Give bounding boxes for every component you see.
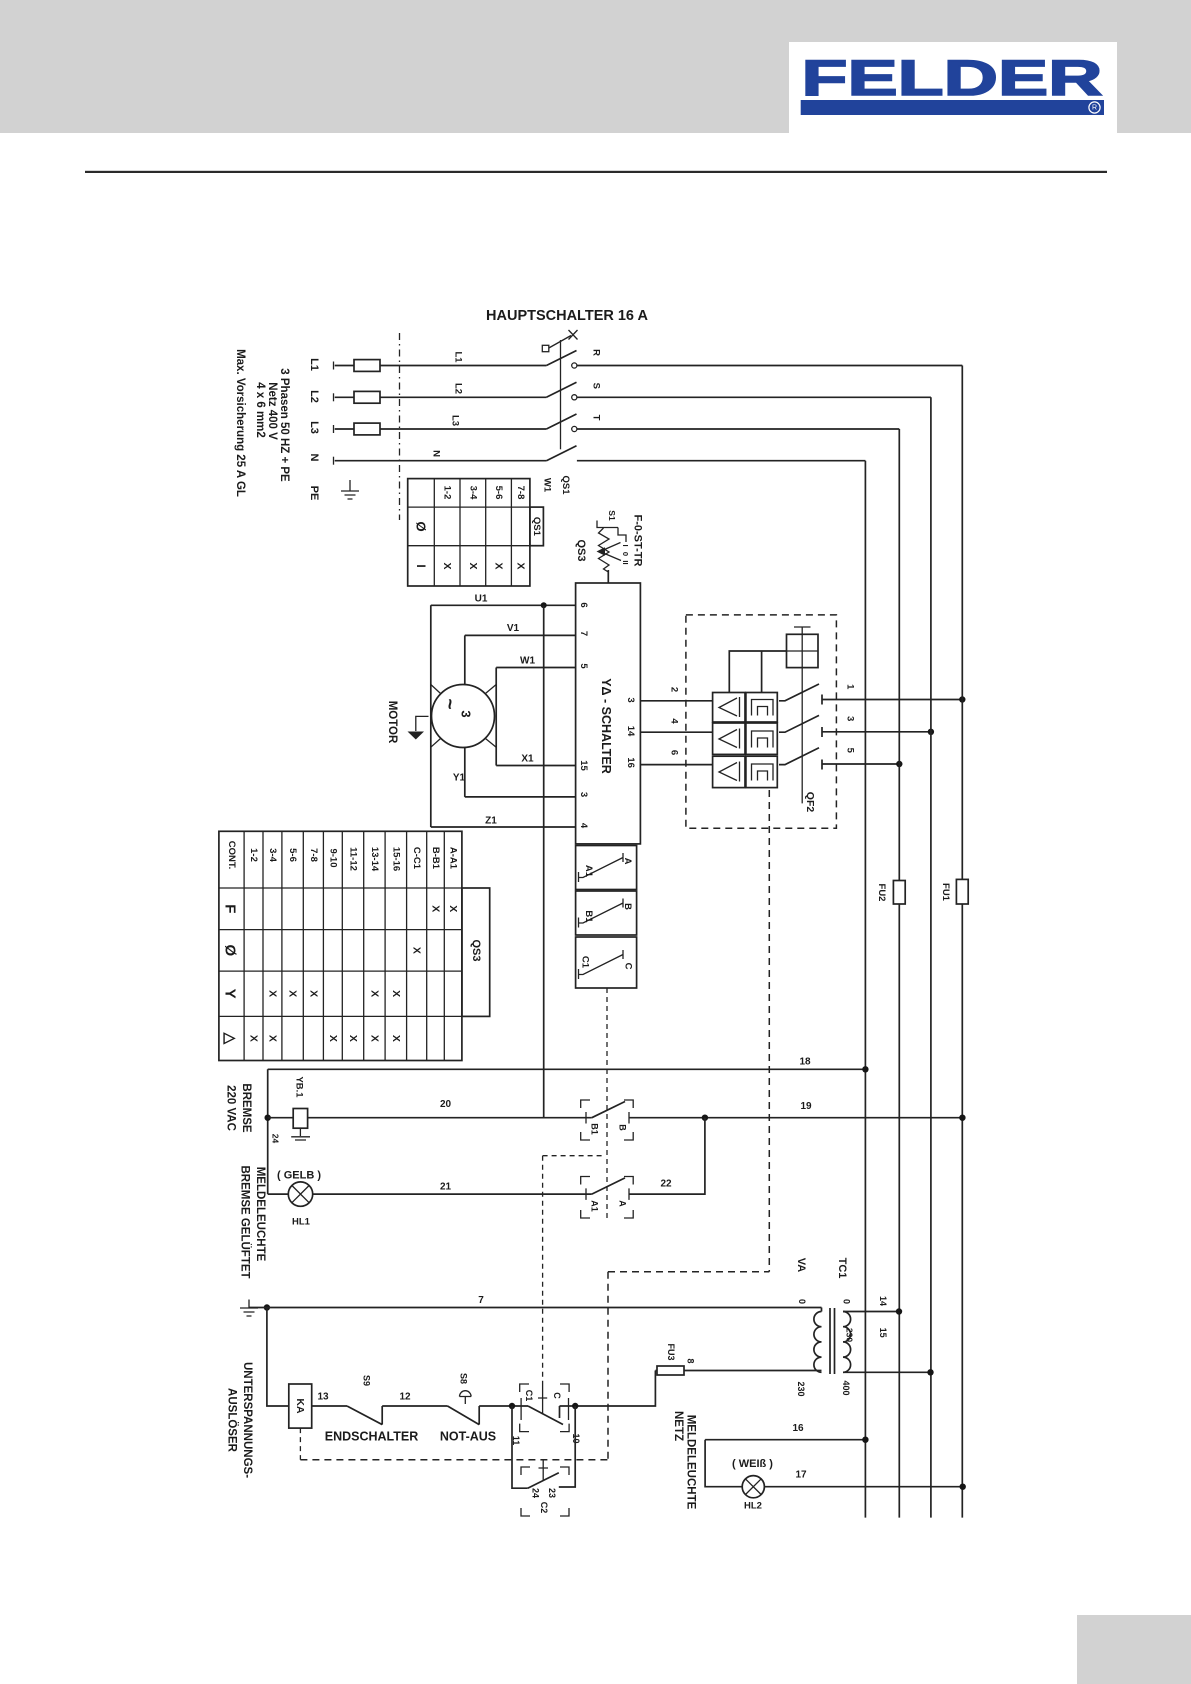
svg-text:5-6: 5-6 bbox=[493, 486, 504, 500]
svg-text:R: R bbox=[1092, 105, 1097, 112]
QF2 overload symbol row3 right bbox=[752, 764, 774, 781]
svg-text:L2: L2 bbox=[308, 390, 320, 403]
header gray band bbox=[0, 0, 1191, 133]
QF2 overload symbol row1 left bbox=[719, 697, 740, 717]
fuse FU3 bbox=[657, 1366, 684, 1375]
svg-text:F-0-ST-TR: F-0-ST-TR bbox=[632, 515, 644, 567]
svg-text:QS1: QS1 bbox=[560, 475, 571, 495]
svg-text:Netz 400 V: Netz 400 V bbox=[266, 382, 278, 440]
svg-text:B1: B1 bbox=[583, 910, 594, 923]
wire to C1 bbox=[479, 1405, 528, 1407]
wire 16 drop bbox=[705, 1440, 742, 1487]
svg-text:230: 230 bbox=[845, 1328, 855, 1342]
contact C2 blade bbox=[528, 1473, 559, 1489]
wire FU3 to contact chain bbox=[575, 1371, 657, 1407]
wire U1 drop to brake bbox=[543, 605, 545, 1117]
relay KA box bbox=[289, 1384, 312, 1428]
node 15/S bbox=[927, 1369, 933, 1375]
svg-text:1: 1 bbox=[845, 684, 856, 690]
svg-text:7-8: 7-8 bbox=[515, 486, 526, 500]
svg-text:3-4: 3-4 bbox=[468, 486, 479, 500]
wire YD out 4 bbox=[640, 731, 712, 733]
wire YD out 2 bbox=[640, 700, 712, 702]
svg-text:7: 7 bbox=[478, 1295, 484, 1306]
PE ground symbol bbox=[341, 480, 359, 499]
svg-text:I: I bbox=[414, 564, 428, 567]
svg-text:B: B bbox=[622, 903, 633, 910]
svg-text:7: 7 bbox=[578, 631, 589, 636]
svg-text:X: X bbox=[267, 1035, 279, 1042]
svg-text:220 VAC: 220 VAC bbox=[225, 1085, 237, 1131]
svg-text:FELDER: FELDER bbox=[802, 50, 1103, 106]
svg-text:QS3: QS3 bbox=[470, 939, 482, 961]
svg-text:13-14: 13-14 bbox=[369, 847, 380, 872]
svg-text:FU2: FU2 bbox=[876, 884, 887, 902]
Endschalter blade bbox=[347, 1406, 382, 1425]
wire 8 bbox=[684, 1370, 822, 1372]
svg-text:Y: Y bbox=[222, 989, 239, 999]
QF2 coil cross lines bbox=[787, 627, 819, 668]
svg-text:X: X bbox=[411, 947, 423, 954]
svg-text:L2: L2 bbox=[453, 383, 464, 394]
svg-text:18: 18 bbox=[799, 1057, 811, 1068]
switch blade L2 bbox=[546, 382, 576, 397]
svg-text:0: 0 bbox=[842, 1299, 852, 1304]
svg-text:16: 16 bbox=[625, 757, 636, 768]
svg-text:3: 3 bbox=[625, 697, 636, 702]
selector fan lines bbox=[605, 543, 622, 561]
wire Z1 bbox=[431, 826, 576, 828]
svg-text:S8: S8 bbox=[458, 1373, 468, 1384]
svg-text:N: N bbox=[431, 450, 442, 457]
svg-text:FU1: FU1 bbox=[940, 883, 951, 902]
svg-text:C: C bbox=[623, 963, 634, 970]
motor stub NW bbox=[431, 685, 441, 694]
motor rail V1-Y1 upper bbox=[464, 635, 466, 684]
svg-text:HL2: HL2 bbox=[744, 1501, 762, 1512]
svg-text:A-A1: A-A1 bbox=[448, 847, 459, 870]
svg-text:7-8: 7-8 bbox=[308, 848, 319, 862]
svg-text:10: 10 bbox=[571, 1433, 581, 1443]
svg-text:F: F bbox=[222, 904, 239, 913]
svg-text:MELDELEUCHTE: MELDELEUCHTE bbox=[254, 1167, 266, 1262]
svg-text:Max. Vorsicherung 25 A GL: Max. Vorsicherung 25 A GL bbox=[234, 349, 246, 497]
svg-text:VA: VA bbox=[795, 1258, 807, 1273]
QS1 table row lines bbox=[408, 507, 530, 546]
svg-text:X: X bbox=[347, 1035, 359, 1042]
bottom-right gray box bbox=[1077, 1615, 1191, 1684]
svg-text:3: 3 bbox=[845, 716, 856, 721]
contact C1 brackets bbox=[520, 1384, 569, 1432]
wire N to bus bbox=[577, 460, 866, 462]
svg-text:X: X bbox=[369, 990, 381, 997]
wire R to bus bbox=[577, 365, 962, 367]
QF2 coil box bbox=[787, 634, 819, 667]
QF2 linkage dashed down bbox=[768, 790, 770, 1272]
svg-text:6: 6 bbox=[669, 750, 680, 755]
wire L1 left segment bbox=[335, 365, 354, 367]
wire U1 bbox=[431, 604, 576, 606]
wire 22 bbox=[629, 1118, 705, 1194]
wire 19 bbox=[629, 1117, 962, 1119]
svg-text:L3: L3 bbox=[308, 421, 320, 434]
svg-text:HAUPTSCHALTER 16 A: HAUPTSCHALTER 16 A bbox=[486, 308, 648, 324]
svg-text:3: 3 bbox=[459, 710, 474, 717]
selector zigzag bbox=[599, 528, 610, 572]
svg-text:L1: L1 bbox=[453, 351, 464, 363]
svg-text:MELDELEUCHTE: MELDELEUCHTE bbox=[685, 1415, 697, 1510]
svg-text:BREMSE: BREMSE bbox=[240, 1083, 252, 1133]
lamp HL1 cross bbox=[292, 1186, 309, 1203]
svg-text:( WEIß ): ( WEIß ) bbox=[732, 1458, 773, 1470]
svg-text:BREMSE GELÜFTET: BREMSE GELÜFTET bbox=[239, 1165, 252, 1278]
svg-text:R: R bbox=[590, 349, 601, 356]
svg-text:19: 19 bbox=[800, 1101, 812, 1112]
wire 16 bbox=[705, 1439, 865, 1441]
QS3 table column lines bbox=[244, 831, 444, 1060]
bus R vertical bbox=[961, 366, 963, 1518]
svg-text:3-4: 3-4 bbox=[267, 848, 278, 862]
contact B1 brackets bbox=[581, 1100, 634, 1140]
fuse FU1 bbox=[956, 879, 968, 904]
node 14/T bbox=[896, 1308, 902, 1314]
svg-text:S1: S1 bbox=[607, 510, 617, 521]
QS1 table column lines bbox=[434, 479, 511, 586]
svg-text:Y1: Y1 bbox=[453, 773, 466, 784]
YB.1 brake symbol bbox=[291, 1128, 310, 1140]
wire L2 left segment bbox=[335, 396, 354, 398]
svg-text:X: X bbox=[467, 562, 479, 569]
svg-text:NETZ: NETZ bbox=[672, 1411, 684, 1441]
svg-text:Ø: Ø bbox=[414, 521, 429, 531]
selector wiper arrow bbox=[597, 547, 606, 555]
wire L3 to switch bbox=[380, 428, 546, 430]
svg-text:4: 4 bbox=[578, 823, 589, 829]
svg-text:Ø: Ø bbox=[222, 945, 239, 957]
svg-text:YΔ - SCHALTER: YΔ - SCHALTER bbox=[599, 678, 613, 774]
svg-text:X: X bbox=[287, 990, 299, 997]
node 16/N bbox=[862, 1437, 868, 1443]
YD aux contact box B1 bbox=[576, 891, 637, 935]
svg-text:23: 23 bbox=[547, 1488, 557, 1498]
node QF2-1/R bbox=[959, 696, 965, 702]
motor rail U1-Z1 bbox=[430, 605, 432, 827]
header rule bbox=[85, 171, 1107, 173]
svg-text:12: 12 bbox=[399, 1392, 411, 1403]
contact A1 blade bbox=[592, 1178, 625, 1194]
svg-text:B-B1: B-B1 bbox=[430, 847, 441, 870]
fuse F-L3 bbox=[354, 423, 380, 435]
main switch handle link bbox=[549, 336, 571, 349]
node QF2-5/T bbox=[896, 761, 902, 767]
QF2 overload boxes bbox=[713, 693, 745, 723]
svg-text:22: 22 bbox=[660, 1179, 672, 1190]
motor rail W1-X1 bbox=[495, 668, 497, 766]
svg-text:A1: A1 bbox=[583, 865, 594, 878]
svg-text:0: 0 bbox=[797, 1299, 807, 1304]
node brake rail bbox=[265, 1115, 271, 1121]
node 18/N bbox=[862, 1066, 868, 1072]
svg-text:( GELB ): ( GELB ) bbox=[277, 1170, 321, 1182]
svg-text:PE: PE bbox=[308, 486, 320, 501]
logo white box bbox=[789, 42, 1117, 135]
node QF2-3/S bbox=[928, 729, 934, 735]
svg-text:8: 8 bbox=[686, 1358, 696, 1363]
wire QF2-5 to T bus bbox=[822, 763, 899, 765]
svg-text:6: 6 bbox=[578, 602, 589, 607]
svg-text:21: 21 bbox=[440, 1182, 452, 1193]
svg-text:MOTOR: MOTOR bbox=[386, 701, 398, 744]
QF2 blade linkage bbox=[801, 668, 803, 804]
wire L2 to switch bbox=[380, 396, 546, 398]
wire 12 segment bbox=[382, 1405, 447, 1407]
svg-text:4 x 6 mm2: 4 x 6 mm2 bbox=[254, 382, 266, 438]
fuse F-L1 bbox=[354, 360, 380, 372]
svg-text:9-10: 9-10 bbox=[328, 848, 339, 867]
svg-text:3: 3 bbox=[578, 792, 589, 797]
contact B1 ticks bbox=[586, 1112, 629, 1124]
QS3 table row lines bbox=[219, 888, 462, 1016]
svg-text:1-2: 1-2 bbox=[248, 848, 259, 862]
svg-text:X: X bbox=[248, 1035, 260, 1042]
motor rail V1-Y1 lower bbox=[464, 747, 466, 797]
wire L3 left segment bbox=[335, 428, 354, 430]
mech linkage dashed to C contacts bbox=[543, 1156, 603, 1384]
svg-text:W1: W1 bbox=[542, 478, 553, 493]
svg-text:L1: L1 bbox=[308, 358, 320, 371]
C2 right riser bbox=[559, 1406, 575, 1487]
svg-text:X: X bbox=[447, 905, 459, 912]
main switch X marker bbox=[569, 330, 578, 340]
transformer core bbox=[830, 1308, 835, 1374]
svg-text:X: X bbox=[390, 990, 402, 997]
svg-text:230: 230 bbox=[796, 1381, 806, 1396]
wire W1 bbox=[496, 667, 575, 669]
node U1 junction bbox=[541, 602, 547, 608]
node C1 right bbox=[572, 1403, 578, 1409]
svg-text:W1: W1 bbox=[520, 656, 535, 667]
fuse FU2 bbox=[893, 881, 905, 905]
svg-text:C1: C1 bbox=[580, 956, 591, 969]
wire YD out 6 bbox=[640, 764, 712, 766]
wire 20 bbox=[308, 1117, 592, 1119]
svg-text:TC1: TC1 bbox=[836, 1258, 848, 1279]
svg-text:~: ~ bbox=[439, 698, 460, 709]
svg-text:ENDSCHALTER: ENDSCHALTER bbox=[325, 1430, 419, 1444]
svg-text:UNTERSPANNUNGS-: UNTERSPANNUNGS- bbox=[241, 1362, 253, 1478]
svg-text:AUSLÖSER: AUSLÖSER bbox=[226, 1388, 239, 1453]
C1 blade bbox=[579, 950, 624, 979]
wire 21 bbox=[313, 1193, 592, 1195]
wire QF2-3 to S bus bbox=[822, 731, 931, 733]
svg-text:FU3: FU3 bbox=[666, 1343, 676, 1360]
YB.1 wire in bbox=[268, 1117, 294, 1119]
YD aux contact box A1 bbox=[576, 846, 637, 890]
YD aux contact box C1 bbox=[576, 937, 637, 988]
main switch QS1 linkage bbox=[560, 340, 562, 449]
Not-Aus blade bbox=[448, 1406, 480, 1425]
QF2 overload symbol row2 right bbox=[752, 731, 774, 748]
linkage dashed horizontal KA bbox=[300, 1459, 608, 1461]
svg-text:15: 15 bbox=[578, 760, 589, 771]
contact C1 linkage bbox=[538, 1384, 547, 1415]
svg-text:4: 4 bbox=[669, 718, 680, 724]
contact C1 blade bbox=[528, 1406, 563, 1425]
svg-text:A: A bbox=[622, 858, 633, 865]
contact A1 ticks bbox=[586, 1188, 629, 1200]
switch contact circle L1 bbox=[572, 363, 577, 368]
KA linkage dashed bbox=[299, 1428, 301, 1460]
motor M1 circle bbox=[432, 685, 495, 748]
switch blade N bbox=[546, 446, 576, 461]
svg-text:S9: S9 bbox=[361, 1375, 371, 1386]
QF2 overload symbol row2 left bbox=[719, 729, 740, 749]
QF2 coil feed wire bbox=[729, 651, 786, 693]
svg-text:X: X bbox=[308, 990, 320, 997]
terminal tick N bbox=[333, 457, 335, 465]
svg-text:13: 13 bbox=[317, 1392, 329, 1403]
contact C1 fixed hook bbox=[560, 1406, 576, 1418]
svg-text:C2: C2 bbox=[539, 1502, 549, 1514]
C2 left riser bbox=[512, 1406, 528, 1488]
svg-text:2: 2 bbox=[669, 687, 680, 692]
node 17/R bbox=[960, 1484, 966, 1490]
svg-text:5: 5 bbox=[845, 748, 856, 754]
wire S to bus bbox=[577, 396, 931, 398]
QF2 dashed enclosure bbox=[686, 615, 837, 828]
svg-text:X: X bbox=[493, 562, 505, 569]
linkage dashed horizontal to KA column bbox=[608, 1271, 769, 1273]
svg-text:0: 0 bbox=[621, 552, 630, 556]
contact C2 linkage bbox=[539, 1460, 549, 1481]
transformer right winding bbox=[843, 1312, 851, 1373]
lamp wire 21 left bbox=[268, 1193, 289, 1195]
svg-text:QS3: QS3 bbox=[575, 539, 587, 561]
terminal tick L3 bbox=[333, 425, 335, 433]
svg-text:S: S bbox=[590, 383, 601, 389]
wire T to bus bbox=[577, 428, 899, 430]
svg-text:C: C bbox=[552, 1392, 562, 1399]
svg-text:20: 20 bbox=[440, 1099, 452, 1110]
svg-text:C1: C1 bbox=[524, 1390, 534, 1402]
wire 18 bbox=[268, 1068, 866, 1070]
svg-text:A1: A1 bbox=[590, 1200, 600, 1212]
svg-text:X: X bbox=[430, 905, 442, 912]
svg-text:C-C1: C-C1 bbox=[411, 847, 422, 870]
svg-text:I: I bbox=[621, 544, 630, 546]
node C1 left bbox=[509, 1403, 515, 1409]
switch blade L3 bbox=[546, 414, 576, 429]
wire X1 bbox=[496, 765, 575, 767]
ground symbol control bbox=[240, 1300, 258, 1317]
svg-text:YB.1: YB.1 bbox=[294, 1076, 305, 1098]
logo registered mark bbox=[1089, 102, 1100, 113]
svg-text:5-6: 5-6 bbox=[287, 848, 298, 862]
svg-text:X: X bbox=[515, 562, 527, 569]
svg-text:X: X bbox=[267, 990, 279, 997]
QF2 blade 5 bbox=[779, 748, 822, 770]
lamp HL2 cross bbox=[746, 1479, 762, 1495]
svg-text:HL1: HL1 bbox=[292, 1217, 311, 1228]
motor stub SW bbox=[431, 738, 441, 747]
switch blade L1 bbox=[546, 351, 576, 366]
QS3 program table outer bbox=[219, 831, 462, 1060]
lamp HL2 bbox=[742, 1476, 764, 1498]
svg-text:24: 24 bbox=[271, 1134, 281, 1144]
terminal tick L1 bbox=[333, 362, 335, 370]
main switch handle square bbox=[542, 345, 549, 351]
svg-text:Z1: Z1 bbox=[485, 816, 497, 827]
svg-text:X: X bbox=[390, 1035, 402, 1042]
svg-text:11-12: 11-12 bbox=[348, 847, 359, 871]
wire 17 bbox=[764, 1486, 962, 1488]
QF2 blade 3 bbox=[779, 715, 822, 737]
fuse F-L2 bbox=[354, 391, 380, 403]
svg-text:B: B bbox=[618, 1124, 628, 1131]
bus T vertical bbox=[898, 429, 900, 1518]
A1 blade bbox=[579, 853, 624, 882]
svg-text:1-2: 1-2 bbox=[442, 486, 453, 500]
svg-text:△: △ bbox=[222, 1032, 239, 1045]
contact C2 brackets bbox=[521, 1467, 569, 1516]
svg-text:3 Phasen 50 HZ + PE: 3 Phasen 50 HZ + PE bbox=[278, 368, 290, 482]
QS1 position table outer bbox=[408, 479, 530, 586]
wire 7 bbox=[249, 1307, 822, 1309]
B1 blade bbox=[579, 899, 624, 928]
svg-text:X: X bbox=[441, 562, 453, 569]
svg-text:X: X bbox=[327, 1035, 339, 1042]
wire 13 segment bbox=[312, 1405, 347, 1407]
QS1 designator box bbox=[530, 507, 544, 546]
wire V1 bbox=[465, 634, 576, 636]
boundary dash-dot line bbox=[399, 333, 401, 520]
svg-text:QF2: QF2 bbox=[804, 792, 816, 813]
svg-text:L3: L3 bbox=[450, 415, 461, 426]
svg-text:QS1: QS1 bbox=[531, 517, 542, 537]
linkage dashed vertical x608 bbox=[607, 1272, 609, 1460]
svg-text:V1: V1 bbox=[507, 623, 520, 634]
svg-text:X1: X1 bbox=[521, 754, 534, 765]
transformer left winding bbox=[814, 1308, 822, 1373]
node 19/R bbox=[959, 1115, 965, 1121]
svg-text:N: N bbox=[308, 454, 320, 462]
motor PE arrowhead bbox=[408, 732, 425, 740]
QF2 blade 1 bbox=[779, 684, 822, 705]
brake rail bbox=[267, 1069, 269, 1194]
node 19/branch bbox=[702, 1115, 708, 1121]
svg-text:KA: KA bbox=[294, 1398, 306, 1414]
FELDER logo bar bbox=[801, 100, 1104, 115]
svg-text:NOT-AUS: NOT-AUS bbox=[440, 1430, 496, 1444]
svg-text:T: T bbox=[590, 415, 601, 421]
svg-text:15-16: 15-16 bbox=[391, 847, 402, 871]
svg-text:400: 400 bbox=[841, 1380, 851, 1395]
node wire7 bbox=[264, 1304, 270, 1310]
motor PE arrow bbox=[416, 716, 429, 731]
svg-text:X: X bbox=[369, 1035, 381, 1042]
contact A1 brackets bbox=[581, 1177, 634, 1219]
QS3 designator box bbox=[462, 888, 490, 1016]
svg-text:CONT.: CONT. bbox=[226, 841, 237, 870]
svg-text:24: 24 bbox=[531, 1488, 541, 1498]
lamp HL1 bbox=[288, 1182, 312, 1206]
wire Y1 bbox=[465, 796, 576, 798]
wire QF2-1 to R bus bbox=[822, 699, 962, 701]
YD-Schalter box bbox=[576, 583, 641, 844]
svg-text:14: 14 bbox=[878, 1296, 888, 1306]
svg-text:A: A bbox=[618, 1200, 628, 1207]
svg-text:II: II bbox=[621, 560, 630, 564]
